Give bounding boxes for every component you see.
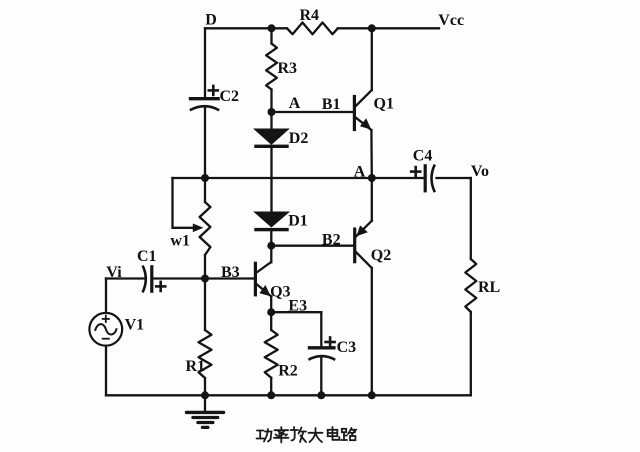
svg-text:Vi: Vi — [106, 264, 122, 281]
svg-text:Q2: Q2 — [371, 247, 391, 264]
svg-text:B2: B2 — [322, 232, 341, 249]
svg-text:A: A — [289, 95, 301, 112]
svg-text:D: D — [205, 12, 217, 29]
svg-text:B3: B3 — [221, 264, 240, 281]
svg-text:V1: V1 — [125, 317, 145, 334]
svg-text:B1: B1 — [322, 96, 341, 113]
svg-text:w1: w1 — [170, 232, 190, 249]
svg-text:C2: C2 — [220, 88, 240, 105]
svg-text:R3: R3 — [278, 60, 298, 77]
svg-text:R1: R1 — [186, 358, 206, 375]
svg-text:C4: C4 — [413, 148, 433, 165]
svg-text:Vo: Vo — [471, 163, 489, 180]
svg-text:E3: E3 — [288, 297, 307, 314]
svg-text:A: A — [354, 163, 366, 180]
svg-text:R4: R4 — [300, 7, 320, 24]
svg-text:R2: R2 — [278, 362, 298, 379]
svg-text:C3: C3 — [337, 339, 357, 356]
svg-text:D2: D2 — [289, 130, 309, 147]
svg-text:Vcc: Vcc — [438, 12, 464, 29]
svg-text:D1: D1 — [288, 213, 308, 230]
svg-text:Q1: Q1 — [374, 96, 394, 113]
svg-text:C1: C1 — [137, 248, 157, 265]
svg-text:RL: RL — [478, 279, 500, 296]
